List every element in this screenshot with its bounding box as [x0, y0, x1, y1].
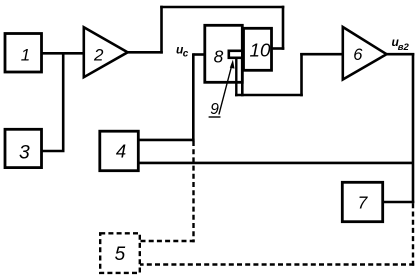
wire amp2 output: [127, 51, 163, 54]
wire block4 lower output long: [138, 162, 414, 165]
svg-text:7: 7: [358, 192, 369, 212]
wire up to amp6 input level: [300, 53, 303, 96]
svg-text:9: 9: [210, 101, 219, 118]
wire strip right line below element 9: [241, 59, 244, 97]
label 9 with underline: [209, 101, 221, 118]
node u_v2 label: [392, 35, 410, 53]
dashed wire from node down to block5: [192, 141, 194, 242]
svg-text:с: с: [183, 48, 189, 59]
wire up segment: [160, 6, 163, 54]
wire block1 to amp2: [42, 52, 85, 55]
wire top segment: [160, 6, 284, 9]
dashed wire bottom long to block5: [140, 263, 414, 265]
svg-text:4: 4: [116, 141, 126, 162]
wire u_c down: [192, 53, 195, 141]
node u_c label: [176, 43, 189, 60]
wire u_c stub to block8: [193, 53, 204, 56]
arrow from label 9 to element 9: [219, 60, 235, 115]
wire down to block10: [282, 6, 285, 50]
wire block7 stub: [384, 201, 414, 204]
block 3: [5, 129, 42, 167]
wire junction down from node between 1 and 2: [62, 52, 65, 151]
dashed wire into block5 upper: [140, 240, 195, 242]
wire strip left line below element 9: [235, 59, 237, 97]
svg-text:5: 5: [115, 244, 126, 265]
block 5 dashed: [100, 233, 140, 273]
amplifier 6: [343, 27, 387, 80]
svg-text:3: 3: [19, 143, 30, 164]
block 8: [205, 25, 243, 82]
block 4: [100, 131, 139, 171]
svg-text:в2: в2: [398, 42, 410, 53]
wire right vertical down: [412, 53, 415, 203]
svg-text:10: 10: [250, 39, 271, 60]
wire into amp6: [300, 53, 344, 56]
wire stub into block10 right edge: [271, 47, 284, 50]
block 10: [244, 28, 272, 70]
svg-text:8: 8: [214, 47, 224, 67]
block 1: [5, 34, 42, 73]
wire bottom horizontal to amp6: [235, 94, 303, 97]
svg-text:1: 1: [21, 46, 30, 65]
svg-text:6: 6: [353, 46, 363, 64]
wire amp6 output: [386, 53, 414, 56]
element 9 small box: [229, 51, 243, 58]
dashed wire right vertical down: [412, 203, 414, 265]
block 7: [342, 182, 382, 221]
wire block3 stub: [42, 150, 65, 153]
amplifier 2: [84, 27, 128, 77]
wire block4 upper output: [138, 139, 195, 142]
svg-text:2: 2: [93, 45, 104, 64]
